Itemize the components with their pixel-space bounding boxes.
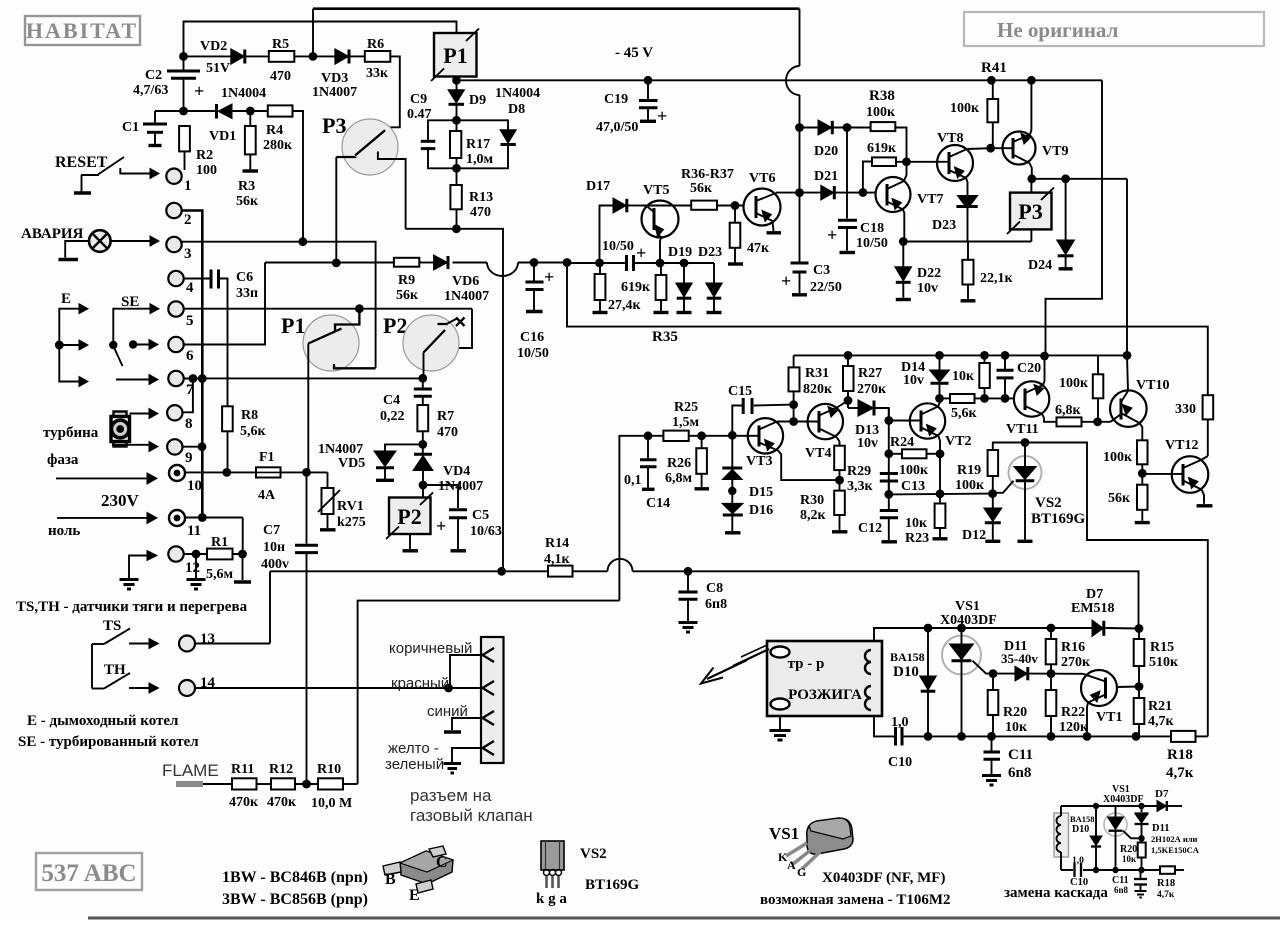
resistor 330 — [1175, 395, 1213, 456]
svg-text:1N4004: 1N4004 — [495, 86, 540, 101]
svg-text:D24: D24 — [1028, 258, 1052, 273]
svg-text:10/50: 10/50 — [602, 239, 634, 254]
svg-text:C16: C16 — [520, 330, 544, 345]
svg-text:+: + — [657, 106, 667, 126]
transistor VT6 — [744, 171, 800, 233]
wire pin5 row to P2 contact loop — [184, 304, 472, 348]
svg-text:2Н102А или: 2Н102А или — [1151, 834, 1198, 844]
label 1BW 3BW transistor note — [222, 869, 368, 908]
svg-text:+: + — [194, 81, 204, 101]
svg-text:R13: R13 — [469, 190, 493, 205]
svg-text:VT10: VT10 — [1136, 378, 1169, 393]
diode D12 — [962, 494, 1002, 543]
ground below pin12 node — [187, 554, 206, 589]
node R29 R30 junction — [835, 476, 844, 485]
connector pin 11 socket — [169, 510, 201, 539]
svg-text:R30: R30 — [800, 493, 824, 508]
node D15 D16 junction — [728, 487, 736, 495]
transistor VT10 — [1110, 355, 1169, 440]
wire pin2 to left bus — [182, 211, 203, 518]
svg-text:R15: R15 — [1150, 640, 1174, 655]
node VD4 to P2 coil — [419, 481, 428, 490]
node R7 to diodes junction — [418, 440, 427, 449]
svg-text:100к: 100к — [955, 478, 985, 493]
svg-text:C15: C15 — [728, 384, 752, 399]
svg-text:газовый клапан: газовый клапан — [410, 806, 533, 825]
svg-text:C11: C11 — [1008, 747, 1033, 763]
node VT2 base column top — [884, 416, 893, 425]
resistor 5,6к horizontal — [950, 394, 978, 421]
node VT1 base junction — [1135, 682, 1144, 691]
svg-text:3: 3 — [184, 246, 192, 262]
svg-text:VS1: VS1 — [769, 824, 799, 843]
capacitor C5 10/63 — [423, 485, 502, 551]
svg-text:R25: R25 — [674, 400, 698, 415]
svg-text:- 45 V: - 45 V — [615, 45, 653, 61]
connector pin 10 socket — [169, 465, 202, 494]
svg-text:VS1: VS1 — [955, 599, 980, 614]
capacitor C3 22/50 — [781, 263, 842, 295]
svg-text:R24: R24 — [890, 435, 914, 450]
node VT8 collector to VT9 base — [986, 144, 995, 153]
svg-text:C19: C19 — [604, 92, 628, 107]
svg-text:TS,TH - датчики тяги и перегр: TS,TH - датчики тяги и перегрева — [16, 599, 248, 615]
wire R35 rail — [567, 263, 1208, 396]
svg-text:+: + — [781, 271, 791, 291]
svg-text:1BW - BC846B (npn): 1BW - BC846B (npn) — [222, 869, 368, 886]
svg-text:100к: 100к — [1103, 450, 1133, 465]
connector gas valve box — [481, 637, 504, 763]
transistor VT9 — [991, 80, 1069, 179]
svg-text:R27: R27 — [858, 366, 882, 381]
thyristor VS1 sub — [1104, 806, 1142, 870]
svg-text:33п: 33п — [236, 286, 258, 301]
svg-text:RESET: RESET — [55, 154, 108, 171]
diode D19 — [668, 245, 692, 313]
diode D7 EM518 — [1071, 587, 1115, 637]
capacitor C8 6п8 — [679, 571, 728, 632]
wire R19 node loop to right rail — [1025, 443, 1208, 737]
resistor R26 6,8м — [665, 436, 709, 489]
svg-text:820к: 820к — [803, 382, 833, 397]
svg-text:9: 9 — [185, 450, 193, 466]
connector pin 2 — [166, 203, 191, 228]
svg-text:R18: R18 — [1167, 747, 1193, 763]
connector pin 7 — [168, 371, 194, 398]
resistor R13 470 — [450, 168, 493, 229]
node D9 cathode junction — [452, 116, 461, 125]
capacitor C6 33n — [184, 270, 258, 407]
bar below R1 right — [234, 554, 251, 582]
svg-text:10/63: 10/63 — [470, 524, 502, 539]
svg-text:470к: 470к — [229, 795, 259, 810]
svg-text:VT3: VT3 — [746, 454, 772, 469]
svg-text:коричневый: коричневый — [389, 640, 472, 657]
capacitor 10/50 on VT5 emitter rail — [602, 239, 646, 271]
relay contact P3 — [322, 113, 406, 229]
svg-text:10к: 10к — [952, 369, 975, 384]
svg-text:R6: R6 — [367, 37, 384, 52]
svg-text:4,7к: 4,7к — [1148, 714, 1175, 729]
svg-text:Р3: Р3 — [1018, 199, 1042, 224]
svg-text:537 ABC: 537 ABC — [41, 860, 136, 887]
svg-text:R29: R29 — [847, 464, 871, 479]
svg-text:4,7к: 4,7к — [1166, 765, 1194, 781]
svg-text:47к: 47к — [747, 241, 770, 256]
svg-text:BT169G: BT169G — [1031, 511, 1086, 527]
svg-text:P2: P2 — [397, 504, 421, 529]
diode D8 — [457, 120, 517, 168]
thyristor VS2 BT169G — [993, 438, 1086, 541]
ground below transformer — [770, 716, 791, 740]
capacitor C10 1,0 — [888, 715, 912, 770]
wire y628 row — [874, 624, 1143, 641]
svg-text:R1: R1 — [211, 535, 228, 550]
svg-text:РОЗЖИГА: РОЗЖИГА — [788, 687, 862, 703]
transistor VT4 — [794, 401, 848, 462]
svg-text:C10: C10 — [888, 755, 912, 770]
svg-text:C4: C4 — [383, 393, 400, 408]
resistor R23 10к — [905, 503, 948, 546]
svg-text:фаза: фаза — [47, 452, 79, 468]
svg-text:8: 8 — [185, 416, 193, 432]
svg-text:120к: 120к — [1059, 720, 1089, 735]
svg-text:510к: 510к — [1149, 655, 1179, 670]
resistor R20 sub — [1120, 843, 1146, 871]
diode D14 10v — [901, 355, 950, 398]
wire ноль arrow — [57, 513, 157, 524]
diode VD3 1N4007 — [312, 49, 357, 100]
svg-text:возможная замена - Т106М2: возможная замена - Т106М2 — [760, 892, 951, 908]
resistor 56к at VT12 — [1108, 473, 1150, 522]
svg-text:10/50: 10/50 — [856, 236, 888, 251]
svg-text:R21: R21 — [1148, 699, 1172, 714]
svg-text:10к: 10к — [905, 516, 928, 531]
svg-text:619к: 619к — [867, 141, 897, 156]
svg-text:10v: 10v — [857, 436, 878, 451]
svg-text:BT169G: BT169G — [585, 877, 640, 893]
svg-text:BA158: BA158 — [890, 650, 925, 664]
svg-text:22/50: 22/50 — [810, 280, 842, 295]
svg-text:1,0м: 1,0м — [466, 152, 494, 167]
svg-text:TS: TS — [103, 618, 121, 634]
resistor 100к at VT12 base — [1103, 440, 1148, 473]
wire y80 bus to right — [457, 76, 1103, 356]
svg-text:E - дымоходный котел: E - дымоходный котел — [27, 713, 179, 729]
svg-text:4: 4 — [186, 280, 194, 296]
resistor R14 4,1к — [544, 536, 573, 577]
label разъем на газовый клапан — [410, 786, 533, 825]
svg-text:D23: D23 — [698, 245, 722, 260]
capacitor C2 4,7/63 — [133, 56, 204, 111]
svg-text:R36-R37: R36-R37 — [681, 167, 734, 182]
svg-text:R41: R41 — [981, 60, 1007, 76]
svg-text:R11: R11 — [231, 762, 254, 777]
diode D22 10v — [895, 242, 941, 300]
wire motor to pin8 arrow — [130, 409, 159, 419]
svg-text:SE - турбированный котел: SE - турбированный котел — [18, 734, 199, 750]
node VT12 base junction — [1138, 469, 1147, 478]
svg-text:R18: R18 — [1157, 878, 1175, 889]
svg-text:330: 330 — [1175, 402, 1196, 417]
diode D23 first — [698, 245, 722, 313]
wire y436 input row — [619, 431, 747, 600]
wire y241 emitter rail — [899, 237, 1032, 246]
svg-text:VT5: VT5 — [643, 183, 669, 198]
node VS1 gate junction — [989, 669, 998, 678]
diode VD5 1N4007 — [318, 442, 423, 480]
capacitor C4 0,22 — [380, 378, 432, 424]
resistor R8 5,6к — [222, 406, 266, 472]
relay coil P3 box — [1007, 179, 1054, 242]
wire y398 VT11 base row — [935, 394, 1014, 403]
svg-text:47,0/50: 47,0/50 — [596, 120, 638, 135]
transistor VT1 — [1081, 670, 1139, 736]
svg-text:VS2: VS2 — [1035, 495, 1062, 511]
svg-text:АВАРИЯ: АВАРИЯ — [21, 226, 84, 242]
svg-text:X0403DF: X0403DF — [1103, 794, 1144, 805]
svg-text:синий: синий — [427, 703, 468, 720]
svg-text:R14: R14 — [545, 536, 569, 551]
icon TO-92 VS2 package — [536, 841, 640, 907]
svg-text:VT7: VT7 — [917, 192, 943, 207]
diode VD1 1N4004 — [209, 86, 266, 144]
svg-text:3,3к: 3,3к — [847, 479, 874, 494]
bottom scan edge line — [88, 917, 1280, 920]
diode VD2 51V — [200, 39, 245, 76]
svg-text:56к: 56к — [690, 181, 713, 196]
wire VT9 emitter to x1127 drop — [1027, 174, 1127, 355]
connector pin 1 — [166, 169, 191, 195]
switch RESET with ground — [55, 154, 159, 193]
wire P1 common to F1 node — [307, 344, 309, 473]
svg-text:100к: 100к — [1059, 376, 1089, 391]
capacitor C7 10н 400v — [261, 472, 318, 784]
svg-text:6п8: 6п8 — [705, 597, 727, 612]
svg-text:A: A — [787, 858, 796, 872]
diode D10 sub — [1090, 806, 1102, 870]
svg-text:12: 12 — [185, 560, 200, 576]
svg-text:10v: 10v — [917, 281, 938, 296]
wire y356 supply bus — [794, 351, 1132, 360]
svg-text:Не оригинал: Не оригинал — [997, 18, 1119, 42]
capacitor C16 10/50 — [517, 263, 554, 362]
connector pin 6 — [168, 337, 194, 364]
resistor R5 470 — [269, 37, 295, 84]
svg-text:VD1: VD1 — [209, 129, 236, 144]
transistor VT12 — [1142, 438, 1212, 506]
wire y736 row — [874, 716, 1208, 741]
wire pin6 riser to R9 row — [184, 263, 265, 345]
svg-text:6n8: 6n8 — [1114, 885, 1129, 895]
diode D11 35-40v — [1001, 639, 1038, 681]
svg-text:51V: 51V — [206, 61, 230, 76]
wire pin9 to bus — [183, 442, 207, 451]
svg-text:P1: P1 — [443, 43, 467, 68]
svg-text:5: 5 — [186, 313, 194, 329]
svg-text:EM518: EM518 — [1071, 601, 1115, 616]
capacitor C14 0,1 — [624, 436, 670, 511]
svg-text:R10: R10 — [317, 762, 341, 777]
svg-text:VT11: VT11 — [1006, 422, 1039, 437]
svg-text:+: + — [544, 267, 554, 287]
svg-text:VT6: VT6 — [749, 171, 775, 186]
frame HABITAT logo box — [25, 16, 140, 45]
wire y56 net: C2 node to VD3 — [184, 52, 400, 134]
svg-text:D9: D9 — [469, 93, 486, 108]
wire P1 coil to D9 node — [456, 77, 458, 90]
node P2 common to C4 — [418, 374, 427, 383]
svg-text:k g a: k g a — [536, 891, 567, 907]
svg-text:400v: 400v — [261, 557, 289, 572]
capacitor C11 sub — [1112, 870, 1147, 898]
resistor 619к feedback — [863, 141, 938, 193]
switch SE — [109, 304, 159, 385]
svg-text:27,4к: 27,4к — [608, 298, 642, 313]
diode D20 — [800, 120, 871, 159]
connector pin красный — [391, 675, 494, 695]
svg-text:E: E — [409, 887, 420, 904]
svg-text:6,8к: 6,8к — [1055, 403, 1082, 418]
svg-text:4,7/63: 4,7/63 — [133, 83, 168, 98]
fuse F1 4A — [256, 450, 281, 503]
svg-text:470: 470 — [470, 205, 491, 220]
transformer coil sub — [1054, 806, 1069, 870]
resistor R20 10к — [988, 674, 1028, 737]
svg-text:11: 11 — [187, 523, 201, 539]
resistor 619к column — [621, 263, 669, 313]
diode D24 — [1028, 179, 1075, 273]
motor turbine symbol — [111, 412, 130, 447]
diode D15 — [722, 431, 773, 500]
resistor 47к below VT6 base — [728, 206, 770, 265]
resistor R3 56к — [236, 111, 259, 209]
resistor R15 510к — [1134, 629, 1179, 687]
svg-text:10v: 10v — [903, 373, 924, 388]
svg-text:+: + — [436, 516, 446, 536]
switch TH — [92, 644, 159, 693]
node R27 D13 VT4 junction — [844, 396, 853, 405]
svg-text:R4: R4 — [266, 123, 283, 138]
transistor VT2 — [889, 398, 972, 503]
svg-text:D17: D17 — [586, 179, 610, 194]
svg-text:D21: D21 — [814, 169, 838, 184]
svg-text:VT8: VT8 — [937, 131, 963, 146]
relay coil P2 box — [386, 485, 433, 551]
svg-text:D12: D12 — [962, 528, 986, 543]
svg-text:C14: C14 — [646, 496, 670, 511]
svg-text:VT12: VT12 — [1165, 438, 1198, 453]
svg-text:R16: R16 — [1061, 640, 1085, 655]
transformer тр-р РОЗЖИГА box — [767, 641, 882, 716]
wire R9 row with hop — [265, 258, 571, 276]
svg-text:G: G — [797, 865, 806, 879]
diode D9 1N4004 — [448, 86, 540, 120]
svg-text:6n8: 6n8 — [1008, 765, 1031, 781]
wire y600 flame riser — [358, 601, 620, 784]
resistor R7 470 — [417, 405, 458, 444]
svg-text:C8: C8 — [706, 581, 723, 596]
thyristor VS1 X0403DF — [940, 599, 997, 736]
transistor VT8 — [937, 131, 991, 196]
wire y571 main bus — [270, 559, 1139, 644]
svg-text:1N4007: 1N4007 — [438, 479, 483, 494]
svg-text:P3: P3 — [322, 113, 346, 138]
svg-text:красный: красный — [391, 675, 449, 692]
svg-text:D10: D10 — [1072, 824, 1089, 835]
svg-text:270к: 270к — [857, 382, 887, 397]
flame electrode bar — [176, 781, 203, 787]
wire pin10 row with fuse to RV1 — [185, 468, 328, 477]
svg-text:C13: C13 — [901, 479, 925, 494]
svg-text:619к: 619к — [621, 280, 651, 295]
wire pin12 arrow — [120, 551, 158, 590]
svg-text:56к: 56к — [396, 288, 419, 303]
resistor R21 4,7к — [1134, 687, 1175, 737]
svg-text:R22: R22 — [1061, 705, 1085, 720]
svg-text:100к: 100к — [899, 463, 929, 478]
capacitor C12 — [858, 494, 898, 541]
svg-text:5,6к: 5,6к — [240, 424, 267, 439]
capacitor C9 0.47 — [407, 92, 457, 168]
wire фаза arrow — [56, 473, 157, 484]
svg-text:470: 470 — [437, 425, 458, 440]
svg-text:VT9: VT9 — [1042, 144, 1068, 159]
svg-text:замена каскада: замена каскада — [1004, 885, 1108, 901]
svg-text:10к: 10к — [1005, 720, 1028, 735]
svg-text:8,2к: 8,2к — [800, 508, 827, 523]
icon TO-92 VS1 package 3d — [778, 818, 853, 879]
svg-text:R7: R7 — [437, 409, 454, 424]
connector pin 5 — [168, 301, 193, 329]
node R17 bottom junction — [452, 164, 461, 173]
label VS1 X0403DF sub — [1103, 784, 1144, 805]
capacitor C15 — [728, 384, 794, 435]
svg-text:1,5м: 1,5м — [672, 415, 700, 430]
connector pin 13 — [179, 631, 270, 652]
svg-text:D11: D11 — [1152, 823, 1170, 834]
svg-text:100к: 100к — [950, 101, 980, 116]
svg-text:HABITAT: HABITAT — [26, 18, 138, 43]
svg-text:35-40v: 35-40v — [1001, 651, 1038, 666]
resistor 100к at VT10 — [1059, 355, 1103, 421]
svg-text:R35: R35 — [652, 329, 678, 345]
svg-text:C18: C18 — [860, 221, 884, 236]
svg-text:C12: C12 — [858, 521, 882, 536]
connector pin 9 — [167, 439, 192, 466]
svg-text:1N4004: 1N4004 — [221, 86, 266, 101]
svg-text:C5: C5 — [472, 508, 489, 523]
varistor RV1 k275 — [318, 472, 366, 530]
svg-text:D20: D20 — [814, 144, 838, 159]
svg-text:470: 470 — [270, 69, 291, 84]
wire pin3 to P1 lower contact riser — [182, 237, 376, 367]
resistor R25 1,5м — [663, 400, 699, 441]
resistor R4 280к — [263, 105, 293, 153]
relay coil P1 box — [431, 29, 479, 82]
svg-text:10/50: 10/50 — [517, 346, 549, 361]
svg-text:ноль: ноль — [48, 523, 80, 539]
resistor R9 56к — [394, 258, 419, 303]
resistor R19 100к — [955, 443, 1025, 494]
svg-text:D10: D10 — [893, 664, 919, 680]
wire x800 column with hop over -45V bus — [786, 9, 804, 262]
wire R13 node to x503 drop — [405, 224, 503, 571]
svg-text:C10: C10 — [1070, 877, 1088, 888]
resistor R6 33к — [365, 37, 391, 81]
connector pin 8 — [167, 405, 192, 432]
svg-text:56к: 56к — [236, 194, 259, 209]
